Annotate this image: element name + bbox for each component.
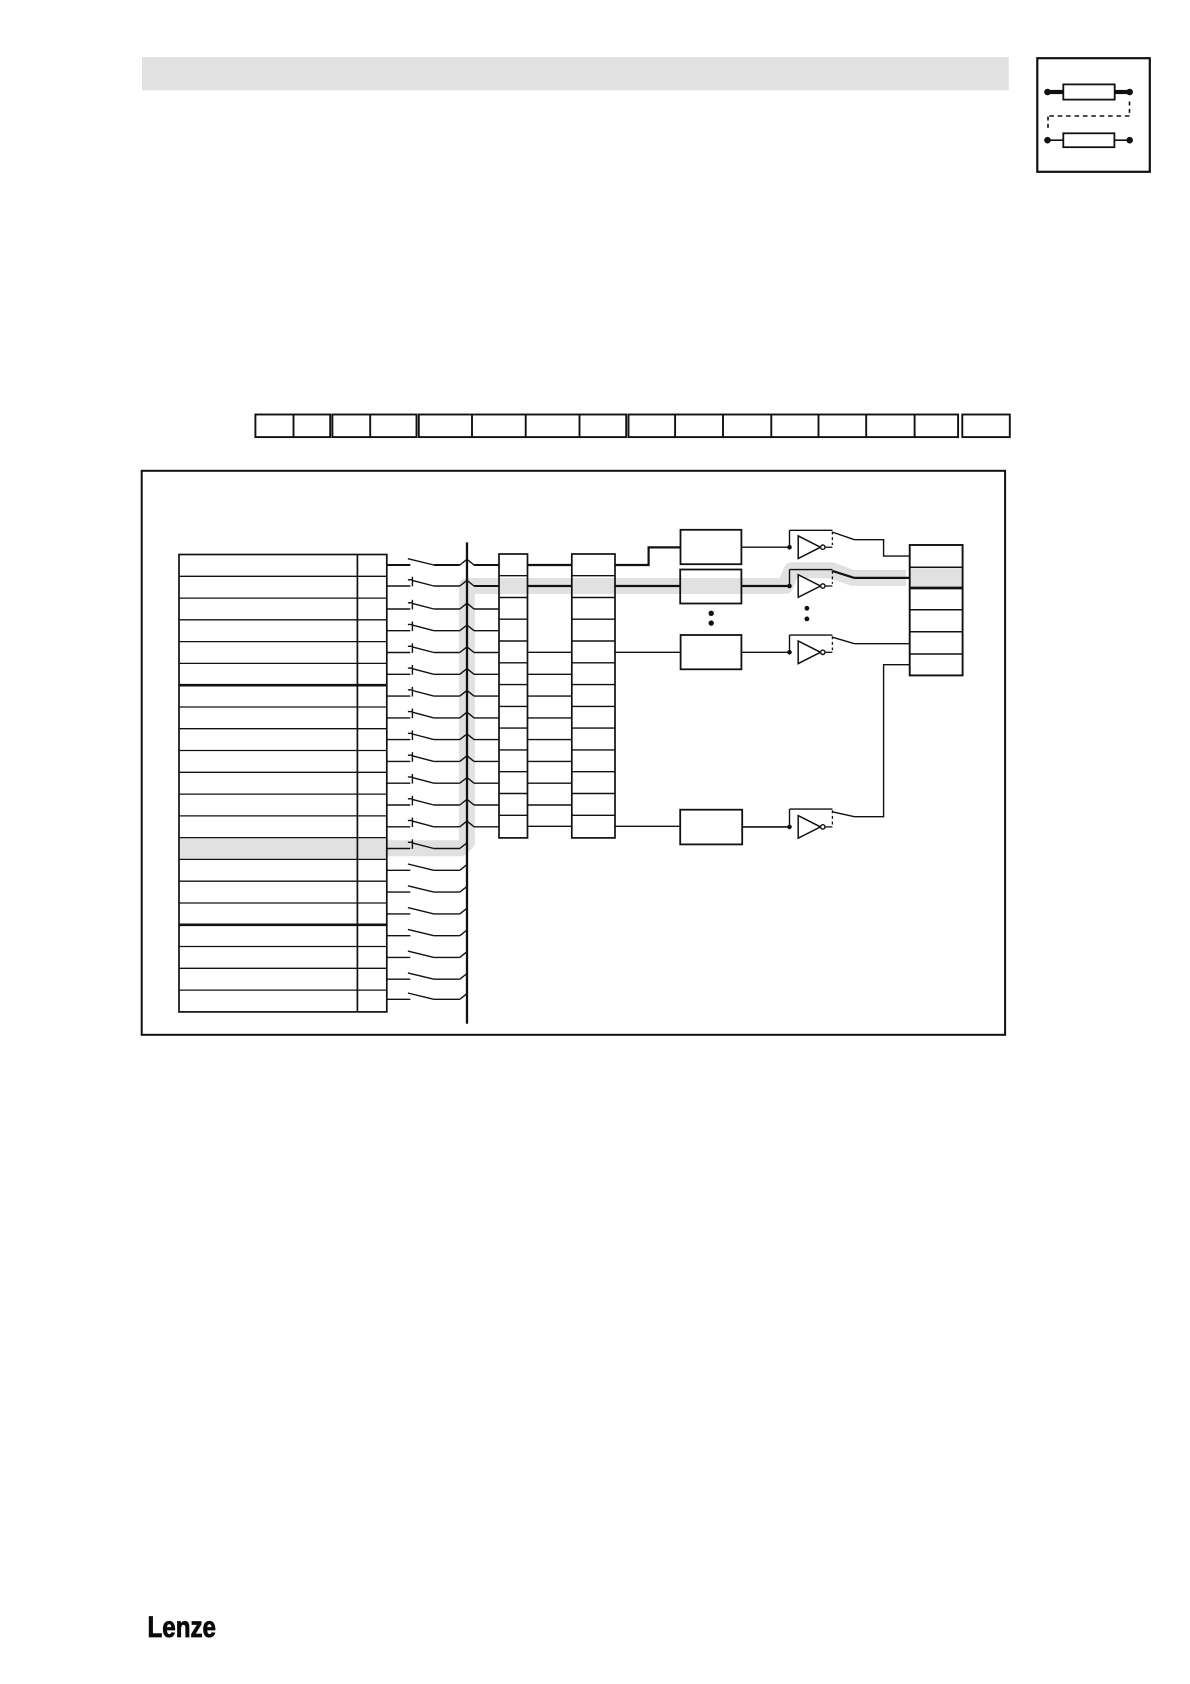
svg-text:Lenze: Lenze bbox=[148, 1611, 217, 1644]
